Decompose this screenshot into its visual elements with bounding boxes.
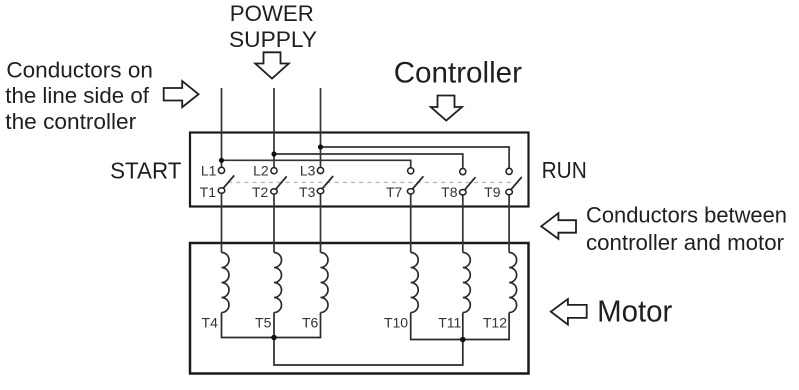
svg-text:START: START [110, 157, 181, 183]
svg-text:POWER: POWER [230, 1, 314, 26]
svg-text:T9: T9 [484, 184, 501, 200]
svg-text:Controller: Controller [394, 57, 522, 90]
svg-text:SUPPLY: SUPPLY [229, 27, 317, 52]
svg-text:L2: L2 [253, 163, 269, 179]
svg-text:T10: T10 [384, 314, 408, 330]
svg-text:T2: T2 [252, 184, 269, 200]
svg-text:T11: T11 [438, 314, 461, 330]
svg-text:controller and motor: controller and motor [586, 230, 784, 255]
svg-text:L3: L3 [300, 163, 316, 179]
svg-text:T6: T6 [302, 314, 319, 330]
svg-text:T7: T7 [386, 184, 403, 200]
svg-text:T8: T8 [441, 184, 458, 200]
svg-text:L1: L1 [201, 163, 217, 179]
svg-text:T5: T5 [255, 314, 272, 330]
svg-text:T3: T3 [299, 184, 316, 200]
svg-text:T1: T1 [200, 184, 217, 200]
svg-text:T4: T4 [202, 314, 219, 330]
svg-text:Conductors on: Conductors on [6, 58, 152, 83]
svg-text:Conductors between: Conductors between [586, 203, 787, 228]
svg-text:the line side of: the line side of [5, 83, 149, 108]
svg-text:T12: T12 [483, 314, 507, 330]
svg-text:RUN: RUN [542, 157, 587, 183]
svg-text:the controller: the controller [5, 109, 136, 134]
svg-text:Motor: Motor [597, 293, 672, 328]
